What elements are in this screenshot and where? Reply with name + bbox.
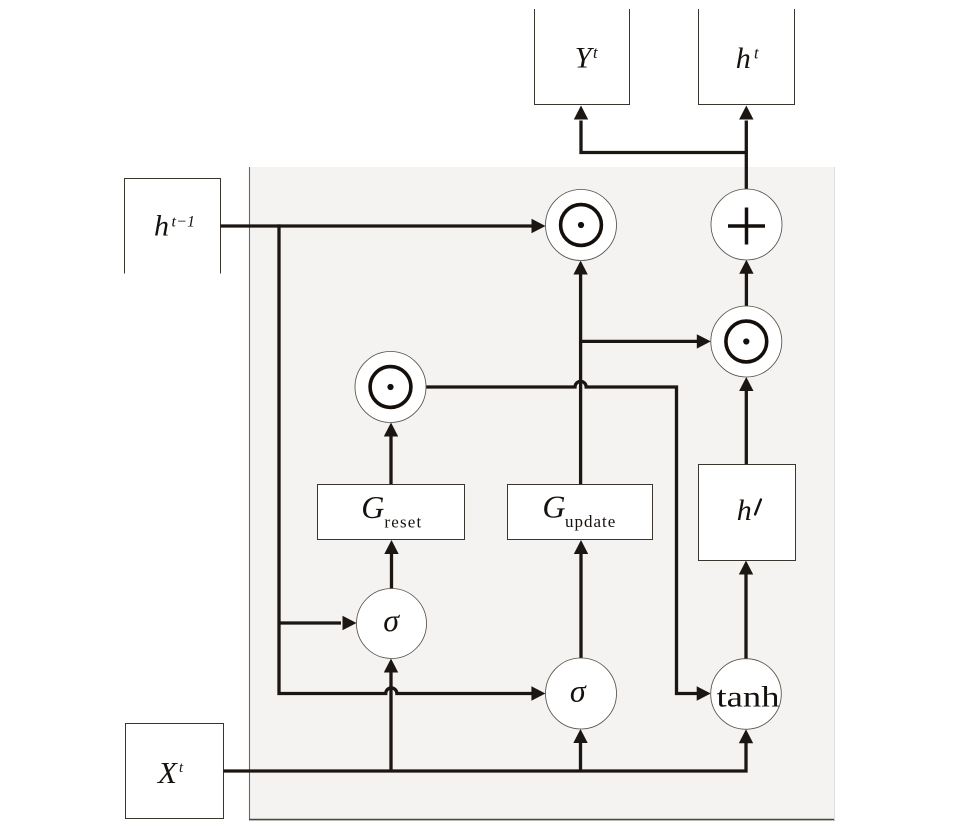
wire plus top up, corner left to Yt, up to ht xyxy=(581,121,748,190)
arrowhead into mul3 bottom xyxy=(384,423,398,437)
node sigma2 xyxy=(546,658,617,729)
wire branch to mul2 left xyxy=(581,340,697,343)
box ht xyxy=(699,9,795,105)
arrowhead into plus bottom xyxy=(739,260,753,274)
node sigma1 xyxy=(357,589,427,659)
arrowhead into ht bottom xyxy=(739,106,753,120)
GRU cell gray background xyxy=(249,167,835,820)
svg-text:h: h xyxy=(154,210,169,243)
arrowhead into tanh bottom xyxy=(739,729,753,743)
node tanh xyxy=(711,659,782,730)
svg-text:tanh: tanh xyxy=(717,681,780,714)
wire tanh up to h' xyxy=(744,574,747,659)
node plus xyxy=(711,189,782,260)
box G reset xyxy=(318,485,465,540)
wire ht-1 branch down at x=279 with corner to sigma2, hop over x=391 xyxy=(279,224,533,693)
wire branch to sigma1 left xyxy=(279,621,341,624)
wire Xt branch up to sigma1 xyxy=(389,671,392,771)
svg-text:t: t xyxy=(593,43,598,62)
arrowhead into sigma1 left xyxy=(343,616,357,630)
svg-text:σ: σ xyxy=(383,602,400,638)
arrowhead into Greset bottom xyxy=(384,540,398,554)
box G update xyxy=(508,485,653,540)
svg-text:G: G xyxy=(542,489,565,525)
svg-text:h: h xyxy=(737,494,752,527)
wire mul2 up to plus xyxy=(745,273,748,307)
arrowhead into mul1 bottom xyxy=(573,261,587,275)
wire mul3 output right, hop over x=580.6, down, into tanh left xyxy=(426,381,697,693)
svg-text:X: X xyxy=(156,755,178,790)
arrowhead into tanh left xyxy=(697,686,711,700)
arrowhead into Yt bottom xyxy=(574,106,588,120)
arrowhead into h' bottom xyxy=(739,561,753,575)
node mul3: circled-dot xyxy=(355,352,426,423)
svg-text:update: update xyxy=(565,512,615,531)
wire Xt branch up to sigma2 xyxy=(579,742,582,771)
node mul2: circled-dot xyxy=(711,306,782,377)
wire Greset to mul3 xyxy=(389,436,392,485)
node mul1: circled-dot xyxy=(546,190,617,261)
arrowhead into mul2 left xyxy=(697,334,711,348)
wire h' up to mul2 xyxy=(745,391,748,465)
svg-text:reset: reset xyxy=(384,513,421,532)
svg-text:t: t xyxy=(754,44,759,63)
arrowhead into sigma1 bottom xyxy=(384,659,398,673)
arrowhead into Gupdate bottom xyxy=(574,540,588,554)
svg-text:G: G xyxy=(361,489,384,525)
svg-text:h: h xyxy=(736,42,751,75)
wire sigma2 to Gupdate xyxy=(579,553,582,659)
wire ht-1 to mul1 xyxy=(221,224,534,227)
wire Gupdate up to mul1 xyxy=(579,274,582,485)
arrowhead into mul1 left xyxy=(532,219,546,233)
svg-text:t−1: t−1 xyxy=(172,213,196,230)
svg-text:σ: σ xyxy=(570,673,587,709)
arrowhead into mul2 bottom xyxy=(739,377,753,391)
box Xt xyxy=(126,724,224,819)
box ht-1 xyxy=(125,179,221,274)
arrowhead into sigma2 bottom xyxy=(573,729,587,743)
box Yt xyxy=(535,9,630,105)
box h' xyxy=(699,465,796,561)
wire Xt output along bottom, corner up to tanh xyxy=(224,742,747,772)
wire sigma1 to Greset xyxy=(390,553,393,589)
arrowhead into sigma2 left xyxy=(531,686,545,700)
